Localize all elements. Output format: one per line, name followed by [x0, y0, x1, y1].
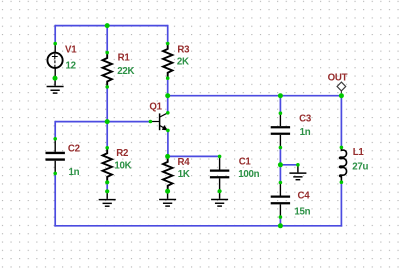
- wire base rail: [55, 121, 150, 123]
- svg-text:OUT: OUT: [328, 72, 348, 83]
- capacitor C2: [46, 139, 65, 174]
- junction bottom rail C4: [278, 223, 283, 228]
- wire C4 bottom: [279, 217, 281, 226]
- pin R2 ground: [105, 189, 109, 193]
- svg-text:L1: L1: [353, 147, 365, 158]
- OUT port: [337, 82, 346, 93]
- wire R2 to ground: [106, 182, 108, 191]
- resistor R4: [163, 156, 172, 191]
- svg-text:10K: 10K: [114, 160, 131, 171]
- pin Q1 base: [149, 120, 153, 124]
- wire emitter down: [167, 130, 169, 156]
- svg-text:22K: 22K: [117, 66, 134, 77]
- pin R2 top: [105, 146, 109, 150]
- ground of R4: [159, 191, 176, 206]
- wire R3 top: [167, 25, 169, 44]
- svg-text:2K: 2K: [177, 56, 189, 67]
- transistor Q1: [150, 113, 168, 131]
- pin C4 bottom: [279, 215, 283, 219]
- svg-text:15n: 15n: [294, 207, 310, 218]
- svg-text:R1: R1: [118, 53, 131, 64]
- wire collector rail: [168, 95, 342, 97]
- svg-text:100n: 100n: [238, 169, 259, 180]
- wire OUT corner down to L1: [340, 95, 342, 147]
- svg-text:R2: R2: [116, 148, 128, 159]
- svg-text:27u: 27u: [352, 161, 368, 172]
- svg-text:Q1: Q1: [149, 102, 162, 113]
- capacitor C1: [210, 156, 229, 191]
- junction OUT corner: [339, 93, 344, 98]
- pin Q1 collector: [166, 111, 170, 115]
- junction emitter R4: [165, 154, 170, 159]
- svg-text:V1: V1: [65, 45, 77, 56]
- pin C1 bottom: [218, 189, 222, 193]
- wire C2 bottom down: [54, 173, 56, 226]
- pin Q1 emitter: [166, 129, 170, 133]
- svg-text:C4: C4: [298, 191, 311, 202]
- svg-text:R4: R4: [178, 157, 191, 168]
- svg-text:1K: 1K: [178, 169, 190, 180]
- pin C2 top: [53, 137, 57, 141]
- capacitor C3: [271, 113, 290, 147]
- svg-text:12: 12: [66, 60, 76, 71]
- junction collector rail R3: [165, 93, 170, 98]
- pin R3 bottom: [166, 76, 170, 80]
- junction R4 ground: [165, 189, 170, 194]
- pin dots: [53, 42, 343, 219]
- wire C3 to C4: [279, 148, 281, 183]
- wire C2 top: [54, 121, 56, 139]
- junction C3 C4 mid: [278, 162, 283, 167]
- pin R1 top: [105, 51, 109, 55]
- wire top rail: [55, 25, 168, 27]
- ground of V1: [47, 78, 64, 93]
- pin R3 top: [166, 42, 170, 46]
- wire bottom rail: [54, 225, 342, 227]
- svg-text:1n: 1n: [69, 167, 80, 178]
- wire R1 top: [106, 26, 108, 53]
- wire V1 top: [54, 25, 56, 44]
- ground of R2: [99, 191, 116, 206]
- pin V1 plus: [53, 42, 57, 46]
- pin C2 bottom: [53, 172, 57, 176]
- pin L1 bottom: [340, 180, 344, 184]
- pin C3 bottom: [279, 146, 283, 150]
- capacitor C4: [271, 183, 290, 218]
- junction collector rail C3: [278, 93, 283, 98]
- pin C3 top: [279, 111, 283, 115]
- resistor R1: [103, 53, 112, 87]
- junction V1 minus: [53, 76, 58, 81]
- svg-text:C2: C2: [68, 143, 80, 154]
- wire emitter rail to C1: [168, 155, 220, 157]
- voltage source V1: [47, 44, 62, 79]
- inductor L1: [340, 147, 347, 182]
- svg-text:R3: R3: [177, 44, 190, 55]
- wire C3 top: [279, 96, 281, 114]
- wire R3 bottom to collector pin: [167, 78, 169, 113]
- pin C4 top: [279, 181, 283, 185]
- ground of C1: [211, 191, 228, 206]
- pin R2 bottom: [105, 180, 109, 184]
- wire ground stub: [280, 164, 298, 166]
- pin R1 bottom: [105, 85, 109, 89]
- wire R1 to R2: [106, 87, 108, 148]
- junction top rail R1: [105, 23, 110, 28]
- pin C1 top: [218, 155, 222, 159]
- junction base rail: [105, 119, 110, 124]
- pin ground stub: [296, 163, 300, 167]
- resistor R3: [163, 44, 172, 79]
- svg-text:C3: C3: [299, 114, 312, 125]
- svg-text:1n: 1n: [300, 127, 311, 138]
- resistor R2: [103, 148, 112, 183]
- Q1 emitter arrow: [162, 125, 168, 131]
- ground between C3 and C4: [289, 165, 306, 180]
- pin L1 top: [340, 146, 344, 150]
- wire L1 bottom: [340, 182, 342, 226]
- svg-text:C1: C1: [239, 157, 252, 168]
